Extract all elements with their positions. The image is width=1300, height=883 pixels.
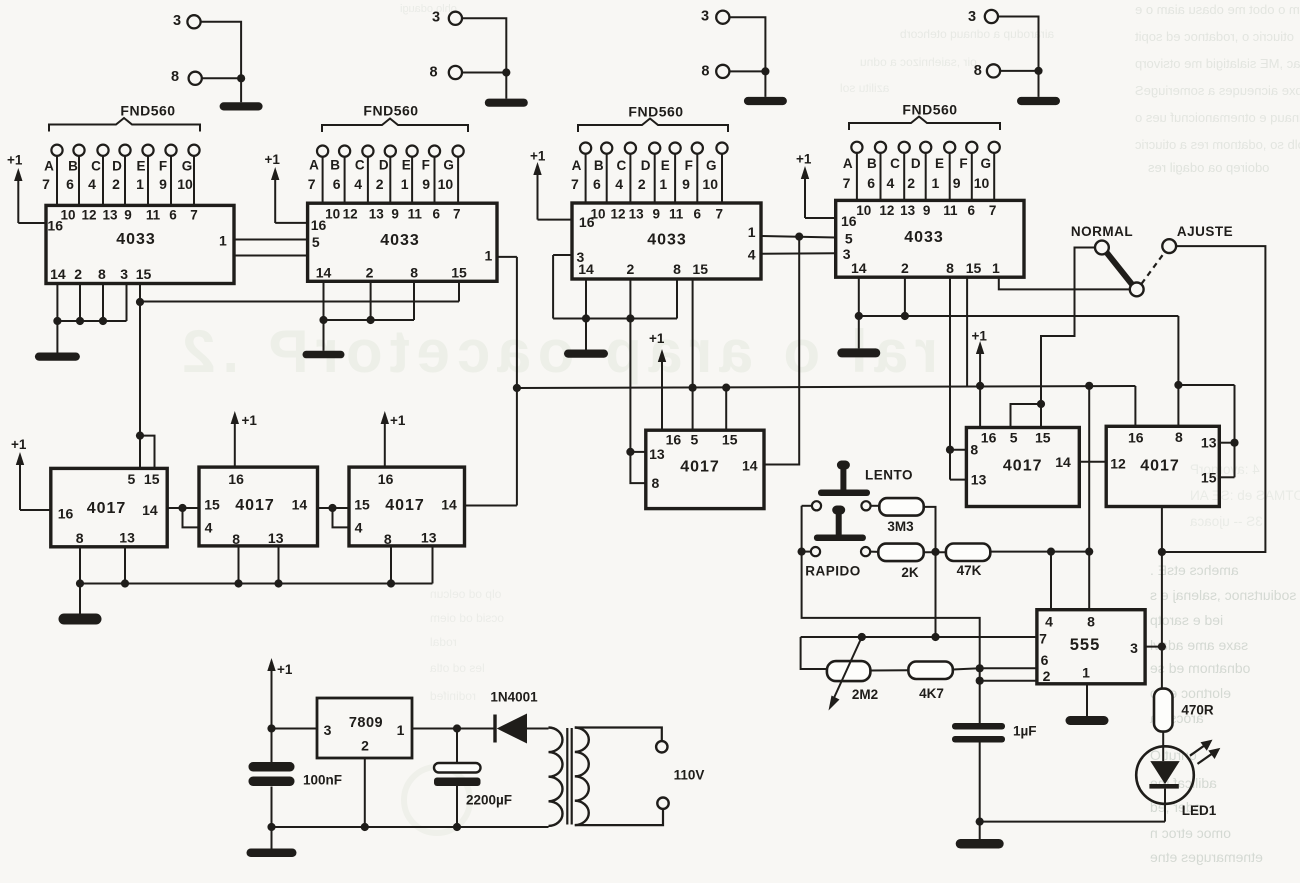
svg-text:15: 15 (1201, 469, 1217, 485)
transformer T1 with 110V primary terminals (549, 728, 705, 826)
resistor R4 4K7 (870, 662, 979, 702)
svg-text:3M3: 3M3 (887, 519, 914, 534)
svg-text:16: 16 (47, 218, 63, 234)
IC U11 555 timer (1037, 610, 1145, 684)
svg-text:2: 2 (907, 175, 915, 191)
wire AJUSTE contact to 555 output node (1162, 246, 1266, 552)
display common terminals 3/8 group 2 with ground (430, 10, 528, 107)
svg-text:11: 11 (146, 207, 161, 222)
svg-text:47K: 47K (957, 563, 982, 578)
svg-text:1: 1 (401, 176, 409, 192)
svg-text:les od otla: les od otla (430, 661, 485, 675)
resistor R2 2K (870, 544, 924, 580)
svg-text:16: 16 (311, 217, 327, 233)
svg-text:F: F (685, 158, 693, 173)
svg-text:8: 8 (171, 69, 179, 85)
wire net U1/U2 pin15 to U5 pins 5,15 (136, 281, 459, 468)
svg-text:socolb so ,odatnom res a otiuc: socolb so ,odatnom res a otiucric (1135, 137, 1300, 152)
svg-text:4017: 4017 (235, 497, 275, 514)
svg-text:7: 7 (308, 176, 316, 192)
svg-text:omoc etroc n: omoc etroc n (1150, 825, 1231, 841)
svg-text:FND560: FND560 (120, 103, 175, 119)
display FND560 label and bracket 2 (322, 103, 468, 133)
svg-text:B: B (68, 159, 78, 174)
+1 supply arrow regulator output rail (267, 658, 293, 729)
svg-text:2: 2 (366, 264, 374, 280)
IC U12 7809 voltage regulator (317, 698, 412, 758)
wire U3-pin1 node down to mid 4017 pin14 (764, 237, 799, 465)
svg-text:1: 1 (485, 248, 493, 264)
svg-text:rodinifed: rodinifed (430, 689, 476, 703)
svg-text:555: 555 (1070, 636, 1101, 654)
svg-text:4033: 4033 (647, 232, 687, 249)
resistor R5 470R (1154, 689, 1214, 732)
svg-text:2: 2 (112, 176, 120, 192)
svg-text:F: F (422, 158, 430, 173)
svg-text:G: G (706, 158, 717, 173)
svg-text:8: 8 (76, 530, 84, 546)
svg-text:2: 2 (901, 260, 909, 276)
svg-text:otiucric o ,rodatnoc ed sopit: otiucric o ,rodatnoc ed sopit (1135, 29, 1294, 44)
svg-text:16: 16 (378, 471, 394, 487)
wire 4017 cascade link pin14 to pins 15,4 (318, 504, 350, 528)
display FND560 label and bracket 4 (849, 102, 1000, 131)
svg-text:9: 9 (923, 203, 931, 218)
svg-text:12: 12 (81, 207, 96, 222)
wire +1 arrow to U3 pin 16 (538, 219, 573, 221)
svg-text:B: B (867, 156, 877, 171)
+1 supply bus horizontal with junction dots (517, 382, 1136, 427)
ground rail of power supply with 7809 pin2 drop (247, 758, 549, 857)
svg-text:14: 14 (441, 497, 457, 513)
ground rail under 4017 row (pins 8,13) (59, 546, 433, 625)
wire 555 pin7 line with 2M2 loop (801, 633, 1037, 669)
svg-text:15: 15 (354, 497, 370, 513)
svg-text:8: 8 (410, 264, 418, 280)
svg-text:6: 6 (1041, 652, 1049, 668)
svg-text:2: 2 (376, 176, 384, 192)
svg-text:9: 9 (953, 175, 961, 191)
wire U4 pin15 down to +1 bus (966, 277, 968, 386)
svg-text:odoirep oa odagil res: odoirep oa odagil res (1148, 160, 1270, 175)
svg-text:8: 8 (701, 63, 709, 79)
svg-text:14: 14 (50, 266, 66, 282)
wire U4 pin1 to switch common (999, 277, 1130, 289)
svg-text:C: C (91, 159, 101, 174)
IC U7 4017 decade counter (349, 467, 465, 547)
svg-text:10: 10 (177, 176, 193, 192)
svg-text:11: 11 (408, 206, 423, 221)
svg-text:G: G (182, 159, 193, 174)
svg-text:2M2: 2M2 (852, 687, 878, 702)
svg-text:oir ,saiehnizoc a odnu: oir ,saiehnizoc a odnu (860, 55, 977, 69)
wire +1 arrow to U2 pin 16 (275, 222, 307, 224)
svg-text:16: 16 (228, 471, 244, 487)
svg-text:9: 9 (653, 206, 661, 221)
svg-text:FND560: FND560 (902, 102, 957, 118)
svg-text:10: 10 (325, 206, 340, 221)
svg-text:5: 5 (312, 234, 320, 250)
svg-text:2: 2 (638, 176, 646, 192)
wire U9 pin14 to U10 pin12 (1079, 461, 1106, 463)
svg-text:13: 13 (119, 529, 135, 545)
wire U10 bottom / 555 pin3 node down to 470R (1145, 507, 1166, 689)
svg-text:6: 6 (967, 203, 975, 218)
IC U1 4033 counter/display driver (46, 205, 234, 283)
svg-text:5: 5 (691, 431, 699, 447)
svg-text:FND560: FND560 (628, 104, 683, 120)
junction dot on U3 pin1 line (795, 233, 803, 241)
IC U4 4033 counter/display driver (836, 200, 1024, 277)
svg-text:+1: +1 (972, 329, 988, 344)
svg-text:A: A (843, 156, 853, 171)
svg-text:4017: 4017 (87, 500, 127, 517)
svg-text:3: 3 (843, 246, 851, 262)
svg-text:D: D (911, 156, 921, 171)
svg-text:15: 15 (204, 497, 220, 513)
svg-text:ocsid od oiem: ocsid od oiem (430, 611, 504, 625)
svg-text:8: 8 (98, 266, 106, 282)
svg-text:FND560: FND560 (363, 103, 418, 119)
svg-text:+1: +1 (796, 152, 812, 167)
svg-text:7809: 7809 (349, 715, 383, 731)
svg-text:LED1: LED1 (1182, 803, 1217, 818)
svg-text:15: 15 (966, 260, 982, 276)
wire mid-4017 pin15 riser to bus (725, 388, 727, 431)
svg-text:2: 2 (627, 261, 635, 277)
wire +1 arrow to U1 pin 16 (18, 222, 46, 224)
svg-text:8: 8 (430, 65, 438, 81)
svg-text:1: 1 (397, 722, 405, 738)
display FND560 label and bracket 1 (49, 103, 200, 132)
svg-text:4: 4 (88, 176, 96, 192)
svg-text:D: D (112, 159, 122, 174)
svg-text:1: 1 (136, 176, 144, 192)
svg-text:14: 14 (742, 458, 758, 474)
svg-text:6: 6 (593, 176, 601, 192)
svg-text:15: 15 (1035, 430, 1051, 446)
svg-text:6: 6 (694, 206, 702, 221)
svg-text:8: 8 (1087, 614, 1095, 630)
svg-text:7: 7 (843, 175, 851, 191)
+1 supply arrow to 4017 U7 pin16 (381, 411, 406, 467)
svg-text:13: 13 (102, 207, 118, 222)
wire 555 pins 6,2 to timing node (976, 664, 1037, 724)
svg-text:7: 7 (989, 203, 997, 218)
svg-text:2200µF: 2200µF (466, 793, 512, 808)
svg-text:E: E (935, 156, 944, 171)
capacitor C2 100nF (249, 762, 343, 827)
svg-text:4033: 4033 (116, 231, 156, 248)
svg-text:3: 3 (968, 9, 976, 25)
svg-text:4: 4 (205, 519, 213, 535)
svg-text:C: C (355, 158, 365, 173)
ground net under U2 (pins 14,2,8) (303, 281, 415, 358)
svg-text:13: 13 (421, 529, 437, 545)
wire +1 arrow to U4 pin 16 (805, 217, 836, 219)
ground 555 pin 1 (1066, 684, 1109, 725)
svg-text:14: 14 (578, 261, 594, 277)
svg-text:15: 15 (136, 266, 152, 282)
svg-text:110V: 110V (674, 768, 705, 783)
resistor R1 3M3 (871, 498, 924, 534)
svg-text:100nF: 100nF (303, 773, 342, 788)
wire 4017 cascade link pin14 to pins 15,4 (167, 504, 199, 528)
svg-text:7: 7 (453, 206, 461, 221)
svg-text:4033: 4033 (904, 229, 944, 246)
IC U2 4033 counter/display driver (308, 203, 497, 281)
svg-text:13: 13 (1201, 435, 1217, 451)
svg-text:airarodup a odnauq otehcorb: airarodup a odnauq otehcorb (900, 27, 1054, 41)
svg-text:G: G (980, 156, 991, 171)
LED1 indicator diode (1136, 732, 1220, 822)
resistor R3 47K (924, 544, 991, 579)
svg-text:8: 8 (652, 475, 660, 491)
wire +1 arrow to U5 pin 16 (20, 509, 51, 511)
svg-text:E: E (136, 159, 145, 174)
svg-text:3: 3 (173, 13, 181, 29)
svg-text:8: 8 (946, 260, 954, 276)
svg-text:8: 8 (970, 442, 978, 458)
IC U9 4017 decade counter (966, 428, 1079, 507)
+1 supply arrow to 4017 U5 pin16 (11, 437, 27, 510)
display common terminals 3/8 group 4 with ground (968, 9, 1060, 105)
svg-text:8: 8 (974, 63, 982, 79)
svg-text:6: 6 (433, 206, 441, 221)
svg-text:1N4001: 1N4001 (490, 690, 538, 705)
display common terminals 3/8 group 3 with ground (701, 9, 787, 106)
pushbutton RAPIDO (805, 506, 870, 579)
+1 supply arrow to U3 pin16 (530, 149, 546, 220)
wire U9 pins 5-15 loop (1011, 400, 1046, 428)
svg-text:+1: +1 (530, 149, 546, 164)
svg-text:5: 5 (1010, 430, 1018, 446)
wire pushbutton common rail to 555 trigger node (798, 506, 980, 668)
svg-text:4K7: 4K7 (919, 686, 944, 701)
+1 supply arrow to U1 pin16 (7, 153, 23, 224)
svg-text:LENTO: LENTO (865, 468, 913, 483)
display segment pin connectors A-G for FND560 4 (843, 142, 1000, 201)
svg-text:rodal: rodal (430, 635, 457, 649)
svg-text:C: C (617, 158, 627, 173)
svg-text:10: 10 (974, 175, 990, 191)
svg-text:13: 13 (629, 206, 645, 221)
svg-text:+1: +1 (242, 413, 258, 428)
wire NORMAL contact down to U9 pins5-15 node (1041, 248, 1095, 405)
svg-text:3S -- ujoaca: 3S -- ujoaca (1190, 514, 1263, 529)
svg-text:2: 2 (361, 738, 369, 754)
svg-text:A: A (309, 158, 319, 173)
display common terminals 3/8 group 1 with ground (171, 13, 263, 111)
svg-text:8: 8 (1175, 429, 1183, 445)
svg-text:4: 4 (1045, 614, 1053, 630)
display segment pin connectors A-G for FND560 1 (42, 145, 199, 206)
diode D1 1N4001 rectifier (490, 690, 548, 744)
+1 supply arrow to 4017 U6 pin16 (231, 411, 258, 467)
svg-text:1: 1 (659, 176, 667, 192)
svg-text:G: G (443, 158, 454, 173)
svg-text:9: 9 (159, 176, 167, 192)
svg-text:amehcs etsE .: amehcs etsE . (1150, 562, 1239, 578)
svg-text:A: A (572, 158, 582, 173)
svg-text:14: 14 (316, 264, 332, 280)
display FND560 label and bracket 3 (578, 104, 728, 133)
svg-text:15: 15 (451, 264, 467, 280)
svg-text:13: 13 (900, 203, 916, 218)
display segment pin connectors A-G for FND560 3 (571, 143, 728, 204)
svg-text:E: E (402, 158, 411, 173)
svg-text:1: 1 (219, 232, 227, 248)
svg-text:11: 11 (669, 206, 684, 221)
svg-text:+1: +1 (277, 662, 293, 677)
pushbutton LENTO (812, 461, 913, 511)
svg-text:1: 1 (1082, 665, 1090, 681)
svg-text:8: 8 (384, 531, 392, 547)
wire 47K / 555 pin4 node to pin8 riser (990, 548, 1089, 610)
svg-text:9: 9 (124, 207, 132, 222)
svg-text:4017: 4017 (1140, 458, 1180, 475)
svg-text:13: 13 (268, 530, 284, 546)
svg-text:RAPIDO: RAPIDO (805, 564, 861, 579)
svg-text:avitacilpxe aicneuqes a someri: avitacilpxe aicneuqes a someriugeS (1135, 83, 1300, 98)
svg-text:7: 7 (190, 207, 198, 222)
+1 supply arrow bus feed right 4017 (972, 329, 988, 428)
svg-text:F: F (959, 156, 967, 171)
IC U5 4017 decade counter (51, 468, 167, 546)
svg-text:16: 16 (981, 430, 997, 446)
svg-text:7: 7 (571, 176, 579, 192)
svg-text:adac ,ME sialatigid me otsivor: adac ,ME sialatigid me otsivorp (1135, 56, 1300, 71)
svg-text:4: 4 (615, 176, 623, 192)
svg-text:ied e sarotp: ied e sarotp (1150, 612, 1223, 628)
svg-text:16: 16 (579, 214, 595, 230)
wire U3 pin1 to U4 pin5 (761, 236, 836, 238)
ground net under U1 (pins 14,2,8,3) (35, 284, 127, 361)
svg-text:etnemaruges etne: etnemaruges etne (1150, 849, 1263, 865)
svg-text:+1: +1 (390, 413, 406, 428)
wire U3 pin4 to U4 pin3 (761, 252, 836, 255)
svg-text:3: 3 (701, 9, 709, 25)
ground net U4 pins 14,2 to U10 pins 8,13,15 (837, 277, 1238, 477)
svg-text:16: 16 (841, 213, 857, 229)
wire U3 pin15 down through bus to mid-4017 pin5 (692, 279, 694, 430)
svg-text:AJUSTE: AJUSTE (1177, 224, 1233, 239)
IC U8 4017 decade counter (minutes) (646, 430, 764, 508)
svg-text:6: 6 (169, 207, 177, 222)
svg-text:12: 12 (610, 206, 625, 221)
svg-text:16: 16 (1128, 430, 1144, 446)
svg-text:7: 7 (716, 206, 724, 221)
svg-text:5: 5 (845, 231, 853, 247)
svg-text:1: 1 (992, 260, 1000, 276)
svg-text:13: 13 (369, 206, 385, 221)
svg-text:9: 9 (422, 176, 430, 192)
svg-text:4: 4 (354, 176, 362, 192)
svg-text:3: 3 (324, 722, 332, 738)
svg-text:F: F (159, 159, 167, 174)
svg-text:7: 7 (42, 176, 50, 192)
svg-text:14: 14 (292, 497, 308, 513)
svg-text:14: 14 (1055, 454, 1071, 470)
ground node bottom of 555/LED branch (956, 818, 1165, 849)
svg-text:olp od oelcun: olp od oelcun (430, 587, 501, 601)
capacitor C3 2200uF electrolytic (434, 763, 512, 827)
svg-text:11: 11 (943, 203, 958, 218)
svg-text:5: 5 (128, 471, 136, 487)
+1 supply arrow to U2 pin16 (265, 152, 281, 223)
svg-text:3: 3 (1130, 640, 1138, 656)
+1 supply arrow to U4 pin16 (796, 152, 812, 219)
svg-text:14: 14 (142, 502, 158, 518)
svg-text:2: 2 (74, 266, 82, 282)
IC U10 4017 decade counter (1106, 426, 1219, 506)
svg-text:C: C (890, 156, 900, 171)
svg-text:6: 6 (867, 175, 875, 191)
wire 3M3 to 2K/47K junction and 555 pin7 line (924, 507, 940, 641)
svg-text:6: 6 (66, 176, 74, 192)
svg-text:B: B (330, 158, 340, 173)
svg-text:NORMAL: NORMAL (1071, 224, 1133, 239)
svg-text:D: D (641, 158, 651, 173)
svg-text:16: 16 (666, 431, 682, 447)
svg-text:D: D (379, 158, 389, 173)
IC U3 4033 counter/display driver (572, 203, 761, 279)
svg-text:azilitu sol: azilitu sol (840, 81, 889, 95)
svg-text:12: 12 (343, 206, 358, 221)
svg-text:+1: +1 (265, 152, 281, 167)
svg-text:15: 15 (692, 261, 708, 277)
svg-text:B: B (594, 158, 604, 173)
svg-text:7: 7 (1039, 631, 1047, 647)
svg-text:9: 9 (682, 176, 690, 192)
svg-text:8: 8 (673, 261, 681, 277)
svg-text:4017: 4017 (1003, 458, 1043, 475)
svg-text:3: 3 (120, 266, 128, 282)
svg-text:4: 4 (355, 519, 363, 535)
svg-text:2: 2 (1043, 668, 1051, 684)
svg-text:4: 4 (887, 175, 895, 191)
svg-text:ob obnum o obot me obasu aiam: ob obnum o obot me obasu aiam o e (1135, 2, 1300, 17)
potentiometer P1 2M2 with wiper arrow (827, 637, 878, 711)
svg-text:1: 1 (748, 224, 756, 240)
svg-text:2K: 2K (901, 565, 919, 580)
svg-text:rop sodiurtsnoc ,salenaj e s: rop sodiurtsnoc ,salenaj e s (1150, 587, 1300, 603)
svg-text:13: 13 (971, 472, 987, 488)
wire U1 to U2 lower link (234, 255, 308, 257)
wire 7809 output node to diode D1 (412, 724, 494, 763)
svg-text:16: 16 (58, 506, 74, 522)
svg-text:10: 10 (438, 176, 454, 192)
wire +1 rail to 7809 input (267, 724, 317, 763)
svg-text:14: 14 (851, 260, 867, 276)
svg-text:4017: 4017 (385, 497, 425, 514)
IC U6 4017 decade counter (199, 467, 318, 547)
svg-text:A: A (44, 159, 54, 174)
svg-text:470R: 470R (1181, 703, 1214, 718)
svg-text:10: 10 (856, 203, 871, 218)
wire U2 pin1 down to +1 bus junction and U7 pin14 (465, 257, 522, 506)
svg-text:ohlo odaugi: ohlo odaugi (400, 3, 457, 15)
svg-text:ROTMAS eb :SE AN: ROTMAS eb :SE AN (1190, 488, 1300, 503)
svg-text:1: 1 (932, 175, 940, 191)
svg-text:8: 8 (232, 531, 240, 547)
wire U4 pin8 down to U9 pins 8,13 (946, 277, 967, 479)
svg-text:15: 15 (722, 431, 738, 447)
svg-text:12: 12 (879, 203, 894, 218)
ground net U3 pins 3,14,2,8 to mid 4017 pins 13,8 (553, 255, 677, 483)
svg-text:+1: +1 (649, 331, 665, 346)
svg-text:+1: +1 (11, 437, 27, 452)
